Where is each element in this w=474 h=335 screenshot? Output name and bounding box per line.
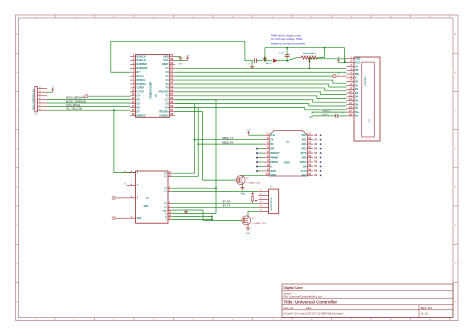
svg-text:DI8: DI8 <box>270 146 275 150</box>
svg-text:AD1: AD1 <box>301 137 307 141</box>
svg-text:AD4: AD4 <box>301 173 307 177</box>
svg-text:XBEE: XBEE <box>284 163 291 165</box>
svg-text:4053: 4053 <box>143 205 149 208</box>
svg-text:ON: ON <box>303 164 307 168</box>
svg-text:/RESET: /RESET <box>270 151 280 155</box>
svg-text:PWM1: PWM1 <box>270 160 278 164</box>
svg-text:for LCD bias voltage. PWM: for LCD bias voltage. PWM <box>271 37 302 41</box>
svg-text:/RTS: /RTS <box>301 151 307 155</box>
svg-text:B5/SCK: B5/SCK <box>137 54 147 58</box>
svg-text:VCC: VCC <box>163 58 169 62</box>
svg-text:INH: INH <box>163 210 167 212</box>
svg-text:Date:: Date: <box>306 306 312 310</box>
svg-text:B7: B7 <box>137 70 141 74</box>
svg-text:MOSI_ORANGE: MOSI_ORANGE <box>66 99 86 103</box>
svg-text:CJ_AM05_D03: CJ_AM05_D03 <box>252 222 266 225</box>
svg-text:C7: C7 <box>165 98 169 102</box>
svg-text:C4: C4 <box>137 94 141 98</box>
svg-text:+5v: +5v <box>186 55 189 57</box>
svg-text:GND: GND <box>246 233 251 235</box>
svg-text:AREF: AREF <box>162 62 169 66</box>
svg-text:MCU_CONTROLLER: MCU_CONTROLLER <box>33 89 35 110</box>
svg-text:RX: RX <box>270 142 274 146</box>
svg-text:Net-C3: Net-C3 <box>323 113 329 116</box>
svg-text:LCD16X2: LCD16X2 <box>365 76 367 86</box>
svg-text:D4: D4 <box>165 105 169 109</box>
svg-text:/DTR: /DTR <box>270 169 276 173</box>
svg-text:AD3: AD3 <box>301 146 307 150</box>
svg-text:GND: GND <box>178 64 183 66</box>
svg-text:TX: TX <box>270 137 274 141</box>
svg-text:BT_TX: BT_TX <box>223 205 231 208</box>
svg-text:B3/MISO: B3/MISO <box>137 62 148 66</box>
svg-text:D7: D7 <box>137 109 141 113</box>
svg-text:VEE: VEE <box>137 218 142 220</box>
svg-text:PWM driven charge pump: PWM driven charge pump <box>271 33 302 37</box>
svg-text:PWM0: PWM0 <box>270 155 278 159</box>
svg-text:Digital Cave: Digital Cave <box>284 286 304 290</box>
svg-text:C?: C? <box>342 113 344 115</box>
svg-text:BL+: BL+ <box>355 111 360 114</box>
svg-text:Reset: Reset <box>137 74 144 78</box>
svg-text:B2/MOSI: B2/MOSI <box>137 66 148 70</box>
svg-text:C6: C6 <box>165 101 169 105</box>
svg-text:AD2: AD2 <box>301 142 307 146</box>
svg-text:BLUETOOTH: BLUETOOTH <box>271 197 273 210</box>
svg-text:ATMEGA328P: ATMEGA328P <box>149 82 153 99</box>
svg-text:D3: D3 <box>137 98 141 102</box>
svg-text:SS_YELLOW: SS_YELLOW <box>66 107 83 111</box>
svg-text:KiCad E.D.A. kicad (2013-07-1: KiCad E.D.A. kicad (2013-07-12 BZR 4022)… <box>284 312 344 316</box>
svg-text:D7/SDA: D7/SDA <box>137 82 147 86</box>
svg-text:D6: D6 <box>137 105 141 109</box>
svg-text:RS: RS <box>355 69 359 72</box>
svg-text:frequency as high as possible.: frequency as high as possible. <box>271 42 306 46</box>
svg-text:VCC: VCC <box>355 62 360 65</box>
svg-text:D5/SCL: D5/SCL <box>137 78 147 82</box>
svg-text:MISO_BROWN: MISO_BROWN <box>66 96 85 100</box>
svg-text:USB/D5: USB/D5 <box>159 113 169 117</box>
svg-text:Size: A4: Size: A4 <box>284 306 294 310</box>
svg-text:B4/CLK: B4/CLK <box>137 58 146 62</box>
svg-text:RES/D6: RES/D6 <box>159 109 169 113</box>
svg-text:Resnetwork: Resnetwork <box>303 52 316 55</box>
svg-text:BAT43: BAT43 <box>266 62 273 65</box>
svg-text:C5/RX: C5/RX <box>137 86 145 90</box>
svg-text:GND: GND <box>163 54 169 58</box>
svg-text:GND: GND <box>270 173 276 177</box>
svg-text:R?: R? <box>338 73 340 75</box>
svg-text:NetR9_2: NetR9_2 <box>323 109 330 112</box>
svg-text:GND: GND <box>355 58 361 61</box>
svg-text:AD0: AD0 <box>301 133 307 137</box>
svg-text:Id: 1/1: Id: 1/1 <box>421 312 429 316</box>
svg-text:XBEE_TX: XBEE_TX <box>222 137 234 140</box>
svg-text:0.1uF: 0.1uF <box>279 52 285 54</box>
svg-text:B6/BUZ: B6/BUZ <box>137 113 147 117</box>
svg-text:CJ_AM05_D03: CJ_AM05_D03 <box>247 181 261 184</box>
svg-text:+5v: +5v <box>51 87 54 89</box>
svg-text:/CTS: /CTS <box>301 169 307 173</box>
svg-text:File: UniversalControllerRev2.: File: UniversalControllerRev2.sch <box>284 295 323 299</box>
svg-text:VREF: VREF <box>300 160 307 164</box>
svg-text:100: 100 <box>242 194 245 196</box>
svg-text:Rev: 2.0: Rev: 2.0 <box>421 306 432 310</box>
svg-text:Title: Universal Controller: Title: Universal Controller <box>284 300 338 305</box>
svg-text:BL-: BL- <box>355 115 359 118</box>
svg-text:SCK_BLUE: SCK_BLUE <box>66 103 80 107</box>
svg-text:+3.3v: +3.3v <box>246 130 251 132</box>
svg-text:C1/TX: C1/TX <box>137 90 145 94</box>
svg-text:BT_RX: BT_RX <box>223 201 231 204</box>
svg-text:XBEE_RX: XBEE_RX <box>222 141 234 144</box>
svg-text:D2: D2 <box>137 101 141 105</box>
svg-text:AD5: AD5 <box>301 155 307 159</box>
svg-text:3.3v: 3.3v <box>270 133 276 137</box>
svg-text:XTAL/D2: XTAL/D2 <box>158 90 169 94</box>
